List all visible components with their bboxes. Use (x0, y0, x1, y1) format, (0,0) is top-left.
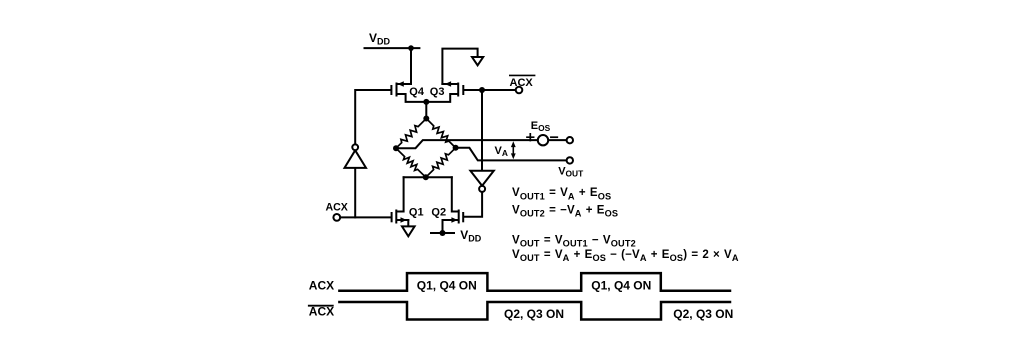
transistor Q1 (392, 177, 409, 226)
svg-text:Q2, Q3 ON: Q2, Q3 ON (673, 307, 733, 321)
svg-text:Q4: Q4 (409, 86, 425, 98)
label ACX input (326, 202, 348, 214)
source EOS (538, 135, 548, 145)
label VDD top (369, 31, 391, 47)
resistor bridge top-right (426, 119, 455, 148)
label VOUT (558, 166, 584, 179)
label Q2 Q3 ON second (673, 307, 733, 321)
node bridge top (423, 116, 429, 122)
resistor bridge bottom-right (426, 148, 456, 178)
wire Q3 source to ground (442, 49, 477, 84)
transistor Q4 (391, 81, 426, 102)
VDD stub at Q2 source (431, 232, 454, 234)
junction dot drains Q3 Q4 (423, 99, 429, 105)
svg-text:Q3: Q3 (430, 86, 445, 98)
svg-text:ACX: ACX (309, 278, 334, 292)
resistor bridge top-left (396, 119, 426, 149)
label Q2 (431, 206, 446, 218)
svg-text:Q1: Q1 (409, 206, 424, 218)
svg-text:Q1, Q4 ON: Q1, Q4 ON (591, 278, 651, 292)
resistor bridge bottom-left (396, 148, 426, 177)
wire Q3 gate to ACX-bar terminal (464, 89, 515, 91)
wire drains to bridge top (425, 102, 427, 119)
svg-text:Q1, Q4 ON: Q1, Q4 ON (417, 278, 477, 292)
node bridge left (393, 145, 399, 151)
equations (512, 187, 739, 263)
wire VDD to Q4 source (410, 48, 412, 84)
wire ACX to Q1 gate (340, 216, 390, 218)
terminal VOUT1 (567, 137, 573, 143)
wire ACX to inverter U1 input (354, 168, 356, 217)
transistor Q3 (426, 81, 463, 102)
ground (top right) (472, 57, 483, 65)
terminal ACX input (333, 214, 340, 221)
junction dot VDD (408, 45, 414, 51)
transistor Q2 (443, 177, 464, 233)
label Q1 Q4 ON first (417, 278, 477, 292)
label Q1 (409, 206, 424, 218)
node bridge bottom (423, 174, 429, 180)
svg-text:Q2: Q2 (431, 206, 446, 218)
label ACX-bar (510, 77, 534, 89)
label Q1 Q4 ON second (591, 278, 651, 292)
VDD rail (365, 47, 420, 49)
wire inverter U2 output to Q2 gate (464, 192, 482, 217)
polarity plus (527, 134, 534, 141)
waveform ACX (339, 273, 730, 291)
svg-text:ACX: ACX (326, 202, 348, 214)
dimension arrow VA (511, 141, 516, 159)
terminal ACX-bar (516, 87, 523, 94)
label VDD bottom (460, 228, 482, 244)
label Q4 (409, 86, 425, 98)
wire ACX-bar node down to inverter U2 (481, 90, 483, 171)
wire inverter U1 output to Q4 gate (355, 90, 390, 144)
polarity minus (551, 136, 557, 138)
svg-text:ACX: ACX (510, 77, 534, 89)
label Q2 Q3 ON first (504, 307, 564, 321)
label ACX-bar timing (309, 305, 334, 319)
ground under Q1 (402, 226, 415, 236)
label Q3 (430, 86, 445, 98)
junction dot node ACX-bar (479, 87, 485, 93)
node bridge right (453, 145, 459, 151)
label ACX timing (309, 278, 334, 292)
label EOS (531, 120, 551, 133)
svg-text:Q2, Q3 ON: Q2, Q3 ON (504, 307, 564, 321)
wire lower output tap (456, 148, 567, 161)
terminal VOUT2 (567, 157, 573, 163)
waveform ACX-bar (339, 302, 730, 320)
label VA (495, 145, 508, 158)
wire upper output tap (396, 140, 538, 148)
inverter U2 (470, 171, 493, 186)
inverter U1 (345, 150, 367, 168)
junction dot VDD bottom (440, 230, 446, 236)
wire bridge bottom rail (404, 176, 452, 178)
